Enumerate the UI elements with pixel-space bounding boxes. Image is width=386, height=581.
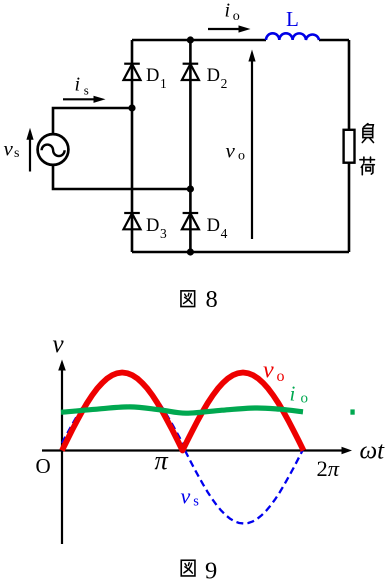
svg-text:2π: 2π xyxy=(317,456,340,481)
svg-text:s: s xyxy=(84,83,89,98)
arrow io xyxy=(208,28,241,30)
wire left branch vertical xyxy=(131,40,134,252)
svg-text:D: D xyxy=(146,66,159,86)
svg-text:D: D xyxy=(207,216,220,236)
diode D1 xyxy=(124,64,141,80)
svg-text:v: v xyxy=(53,331,65,358)
svg-text:D: D xyxy=(146,216,159,236)
curve vo (red rectified sine) xyxy=(62,373,304,451)
node: source to D2/D4 junction xyxy=(187,185,194,192)
svg-text:D: D xyxy=(207,66,220,86)
node: top bus / D2 branch xyxy=(187,36,194,43)
svg-text:o: o xyxy=(238,148,245,163)
wire source top terminal xyxy=(53,108,132,135)
diode D3 xyxy=(124,213,141,229)
load resistor (fuka) xyxy=(344,130,355,163)
arrow vs xyxy=(29,139,31,172)
svg-text:π: π xyxy=(155,445,169,475)
svg-text:O: O xyxy=(36,454,51,478)
svg-text:o: o xyxy=(277,368,285,385)
diode D4 xyxy=(182,213,199,229)
svg-text:1: 1 xyxy=(160,76,167,91)
svg-text:o: o xyxy=(233,9,240,24)
svg-text:v: v xyxy=(226,138,236,162)
svg-text:4: 4 xyxy=(221,226,228,241)
svg-text:2: 2 xyxy=(221,76,228,91)
arrow vo xyxy=(251,60,253,239)
wire top bus left segment xyxy=(132,39,266,42)
inductor L xyxy=(266,33,319,40)
AC source vs xyxy=(38,134,69,165)
node: source to D1/D3 junction xyxy=(128,104,135,111)
svg-text:3: 3 xyxy=(160,226,167,241)
svg-text:i: i xyxy=(290,381,296,405)
svg-text:ωt: ωt xyxy=(360,438,386,465)
svg-text:v: v xyxy=(263,358,274,384)
svg-text:v: v xyxy=(181,484,191,509)
svg-text:9: 9 xyxy=(205,558,217,581)
wire top bus right segment xyxy=(319,39,349,42)
svg-text:8: 8 xyxy=(206,286,218,313)
wire bottom bus xyxy=(132,251,349,254)
caption 図 8 xyxy=(181,291,195,307)
svg-text:o: o xyxy=(301,390,309,406)
svg-text:i: i xyxy=(225,0,231,22)
wire middle branch vertical xyxy=(189,40,192,252)
svg-text:s: s xyxy=(193,493,199,509)
node: bottom bus / D4 branch xyxy=(187,248,194,255)
wire right branch upper xyxy=(348,40,351,130)
label fuka kanji 負 xyxy=(362,124,373,143)
svg-text:s: s xyxy=(14,146,19,161)
diode D2 xyxy=(182,64,199,80)
wire source bottom terminal xyxy=(53,165,190,190)
x-axis xyxy=(42,449,342,451)
svg-text:v: v xyxy=(4,136,14,160)
svg-text:L: L xyxy=(286,7,299,31)
y-axis xyxy=(61,370,63,544)
curve io (green load current) xyxy=(61,407,303,413)
caption 図 9 xyxy=(181,560,195,576)
wire right branch lower xyxy=(348,163,351,253)
arrow is xyxy=(63,98,96,100)
green curve fragment xyxy=(350,409,354,414)
label fuka kanji 荷 xyxy=(360,157,375,175)
curve vs (blue dashed sine) xyxy=(62,374,303,524)
svg-text:i: i xyxy=(75,74,81,96)
